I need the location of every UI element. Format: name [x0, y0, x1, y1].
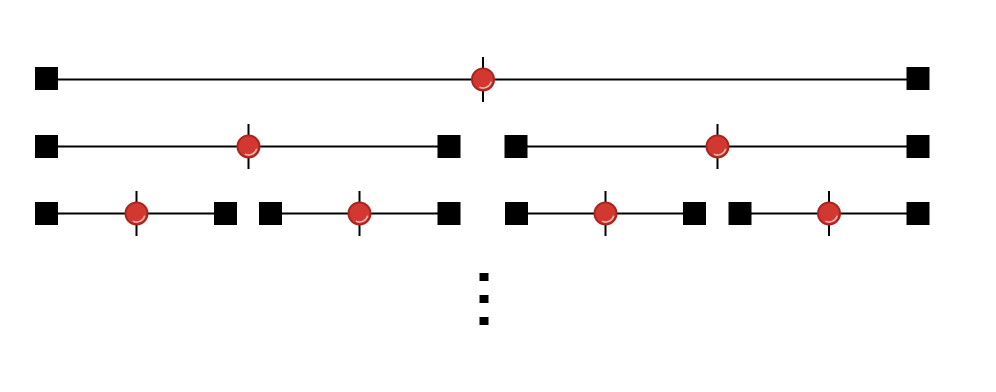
wire row3 interval 3 — [517, 213, 695, 215]
node row3 interval1 midpoint — [126, 191, 148, 236]
node row2 right interval left endpoint — [505, 135, 528, 158]
node row3 interval2 midpoint — [349, 191, 371, 236]
node row2 right interval right endpoint — [907, 135, 930, 158]
node row1 midpoint — [472, 57, 494, 102]
node row3 interval2 left endpoint — [259, 202, 282, 225]
node row3 interval4 left endpoint — [729, 202, 752, 225]
node row1 right endpoint — [907, 67, 930, 90]
vertical ellipsis dot 2 — [480, 295, 489, 303]
node row2 left interval right endpoint — [438, 135, 461, 158]
wire row1 interval — [47, 79, 919, 81]
wire row3 interval 4 — [740, 213, 918, 215]
node row3 interval3 left endpoint — [505, 202, 528, 225]
node row2 left midpoint — [238, 124, 260, 169]
wire row2 left interval — [47, 146, 450, 148]
vertical ellipsis dot 3 — [480, 317, 489, 325]
node row1 left endpoint — [35, 67, 58, 90]
node row3 interval2 right endpoint — [438, 202, 461, 225]
node row3 interval1 left endpoint — [35, 202, 58, 225]
node row2 left interval left endpoint — [35, 135, 58, 158]
node row3 interval3 midpoint — [595, 191, 617, 236]
node row3 interval1 right endpoint — [214, 202, 237, 225]
wire row3 interval 2 — [271, 213, 450, 215]
wire row2 right interval — [516, 146, 918, 148]
vertical ellipsis dot 1 — [480, 273, 489, 281]
node row2 right midpoint — [707, 124, 729, 169]
node row3 interval3 right endpoint — [683, 202, 706, 225]
node row3 interval4 right endpoint — [907, 202, 930, 225]
wire row3 interval 1 — [47, 213, 226, 215]
node row3 interval4 midpoint — [818, 191, 840, 236]
